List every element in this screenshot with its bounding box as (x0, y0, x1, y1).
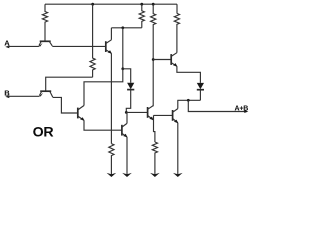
resistor R5 (90, 4, 95, 77)
VEE arrow under Q5 (122, 173, 132, 177)
wire Q5 collector up to node (125, 112, 128, 123)
resistor R2 (139, 4, 144, 28)
transistor Q6 (148, 106, 154, 121)
transistor Q2 (input B, hat style) (39, 91, 53, 97)
transistor Q3 (106, 40, 112, 54)
VEE arrow under R7 (150, 173, 160, 177)
svg-text:OR: OR (33, 125, 54, 141)
resistor R4 (174, 13, 179, 50)
transistor Q4 (78, 106, 85, 121)
wire R4 bottom to Q8 collector (176, 50, 178, 53)
wire Q6 emitter / Q7 base / R7 junction (154, 115, 155, 142)
transistor Q1 (input A, hat style) (39, 41, 53, 46)
resistor R1 (42, 4, 47, 40)
wire VCC top rail (45, 3, 177, 5)
VEE arrow under R6 (107, 173, 117, 177)
wire Q7 emitter down to VEE (177, 123, 179, 175)
wire node 122.8,68.8 down-left to Q4 collector (84, 69, 123, 106)
wire output top: Q7 collector to D2 (177, 99, 200, 101)
svg-text:A+B: A+B (235, 106, 249, 113)
wire input A to Q1 emitter (8, 45, 39, 47)
wire node Q3C to R2 bottom (111, 27, 141, 29)
resistor R7 (152, 142, 157, 175)
wire Q7 base (154, 114, 173, 116)
wire D1 cathode down to node 126.3,112.4 (126, 90, 130, 113)
wire Q7 collector up to output wire (177, 100, 179, 108)
wire Q8 emitter to D2 anode (177, 66, 201, 83)
node dot R3 to Q8 base tap (152, 58, 155, 61)
output arrow (244, 110, 248, 113)
node rail-R2 junction dot (140, 3, 143, 6)
input arrow B (5, 95, 9, 98)
transistor Q5 (122, 123, 128, 137)
wire Q3 collector up (110, 28, 112, 40)
node rail-R5 junction dot (91, 3, 94, 6)
node dot at x122.8 y27.8 (121, 26, 124, 29)
node dot at 126.3,112.4 (125, 111, 128, 114)
node rail-R3 junction dot (152, 3, 155, 6)
wire input B to Q2 emitter (8, 95, 40, 97)
wire node to D1 anode (123, 69, 131, 83)
wire Q1 base to Q3 base (52, 45, 106, 47)
VEE arrow under Q7 (173, 173, 183, 177)
transistor Q8 (171, 53, 177, 67)
wire Q4 emitter to Q5 base (84, 120, 122, 130)
wire x122.8 down from 27.8 to node 68.8 (122, 28, 124, 69)
diode D2 (197, 83, 204, 90)
diode D1 (127, 83, 134, 90)
wire Q5 emitter down to VEE (126, 137, 128, 175)
input arrow A (5, 45, 9, 48)
wire R5 bottom to Q2 collector (46, 77, 93, 91)
wire node to Q6 base (126, 111, 147, 113)
wire R3 tap to Q8 base (153, 59, 171, 61)
wire Q2 base to Q4 base (53, 97, 78, 113)
wire rail corner to R4 (176, 4, 178, 13)
wire output to terminal (188, 100, 246, 111)
resistor R6 (109, 144, 114, 175)
resistor R3 (151, 4, 156, 106)
node dot at 122.8,68.8 (121, 67, 124, 70)
node dot output tap (187, 99, 190, 102)
wire D2 cathode down to output node wire (199, 90, 201, 101)
transistor Q7 (173, 109, 179, 124)
transistor Q3 emitter wire down to R6 (110, 53, 112, 143)
